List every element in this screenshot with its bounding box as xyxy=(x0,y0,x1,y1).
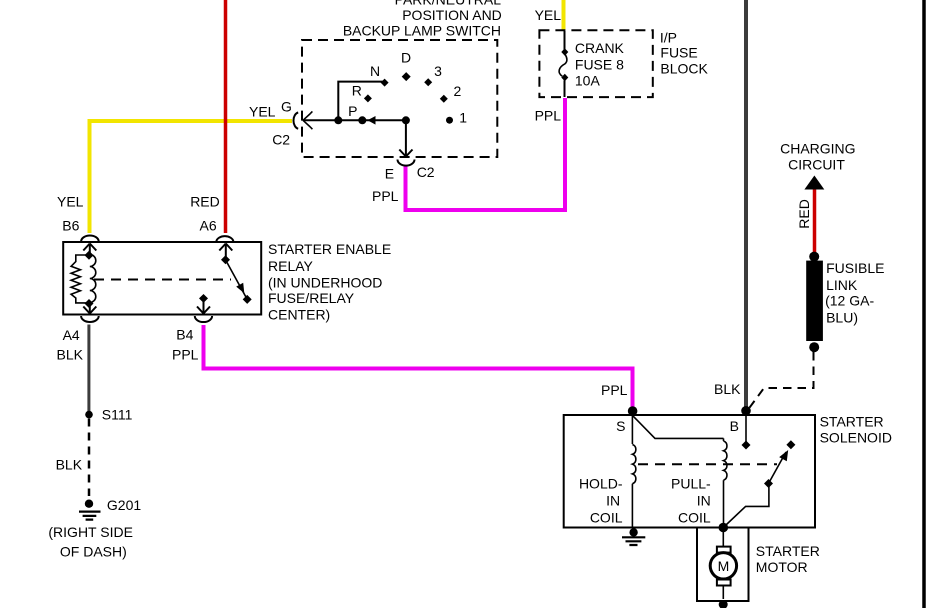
svg-text:P: P xyxy=(348,103,357,119)
svg-text:IN: IN xyxy=(606,493,620,509)
svg-text:E: E xyxy=(385,165,394,181)
svg-text:N: N xyxy=(370,63,380,79)
svg-text:M: M xyxy=(718,558,730,574)
svg-text:I/P: I/P xyxy=(660,29,677,45)
svg-text:D: D xyxy=(401,49,411,65)
svg-text:LINK: LINK xyxy=(826,277,858,293)
svg-text:HOLD-: HOLD- xyxy=(579,476,623,492)
svg-text:FUSE 8: FUSE 8 xyxy=(575,56,624,72)
svg-text:C2: C2 xyxy=(417,164,435,180)
svg-text:(12 GA-: (12 GA- xyxy=(825,293,874,309)
svg-text:(RIGHT SIDE: (RIGHT SIDE xyxy=(48,524,133,540)
svg-text:1: 1 xyxy=(459,109,467,125)
svg-text:POSITION AND: POSITION AND xyxy=(402,7,502,23)
svg-text:B4: B4 xyxy=(176,326,193,342)
svg-text:BACKUP LAMP SWITCH: BACKUP LAMP SWITCH xyxy=(343,23,501,39)
svg-text:OF DASH): OF DASH) xyxy=(60,543,127,559)
svg-text:A6: A6 xyxy=(200,218,217,234)
svg-text:COIL: COIL xyxy=(590,510,623,526)
svg-text:STARTER ENABLE: STARTER ENABLE xyxy=(268,241,391,257)
svg-text:G: G xyxy=(281,99,292,115)
svg-text:RED: RED xyxy=(190,194,220,210)
svg-text:FUSE: FUSE xyxy=(660,44,697,60)
svg-text:CIRCUIT: CIRCUIT xyxy=(788,156,845,172)
svg-text:B: B xyxy=(730,418,739,434)
svg-text:BLU): BLU) xyxy=(826,310,858,326)
svg-text:C2: C2 xyxy=(272,132,290,148)
svg-text:BLK: BLK xyxy=(57,346,84,362)
svg-text:IN: IN xyxy=(697,493,711,509)
svg-text:RED: RED xyxy=(796,199,812,229)
svg-text:R: R xyxy=(352,82,362,98)
svg-text:STARTER: STARTER xyxy=(756,543,820,559)
svg-text:PPL: PPL xyxy=(535,108,562,124)
svg-text:YEL: YEL xyxy=(249,104,276,120)
svg-text:3: 3 xyxy=(434,63,442,79)
svg-text:(IN UNDERHOOD: (IN UNDERHOOD xyxy=(268,275,382,291)
svg-text:CHARGING: CHARGING xyxy=(780,140,855,156)
svg-text:B6: B6 xyxy=(62,218,79,234)
svg-text:RELAY: RELAY xyxy=(268,258,314,274)
svg-text:G201: G201 xyxy=(107,497,141,513)
svg-text:COIL: COIL xyxy=(678,510,711,526)
svg-text:10A: 10A xyxy=(575,72,601,88)
svg-text:MOTOR: MOTOR xyxy=(756,559,808,575)
svg-text:FUSIBLE: FUSIBLE xyxy=(826,260,884,276)
svg-text:FUSE/RELAY: FUSE/RELAY xyxy=(268,290,355,306)
svg-text:YEL: YEL xyxy=(57,194,84,210)
svg-text:S111: S111 xyxy=(102,407,133,423)
svg-text:STARTER: STARTER xyxy=(820,414,884,430)
svg-text:CENTER): CENTER) xyxy=(268,307,330,323)
svg-text:BLK: BLK xyxy=(714,381,741,397)
svg-text:PPL: PPL xyxy=(372,188,399,204)
svg-text:A4: A4 xyxy=(63,327,80,343)
svg-text:PULL-: PULL- xyxy=(671,476,711,492)
svg-text:PPL: PPL xyxy=(172,347,199,363)
svg-text:2: 2 xyxy=(454,83,462,99)
svg-text:S: S xyxy=(616,418,625,434)
svg-text:SOLENOID: SOLENOID xyxy=(820,430,892,446)
svg-text:PPL: PPL xyxy=(601,382,628,398)
svg-text:BLOCK: BLOCK xyxy=(660,61,708,77)
svg-text:YEL: YEL xyxy=(535,7,562,23)
svg-text:CRANK: CRANK xyxy=(575,40,625,56)
svg-text:BLK: BLK xyxy=(56,457,83,473)
